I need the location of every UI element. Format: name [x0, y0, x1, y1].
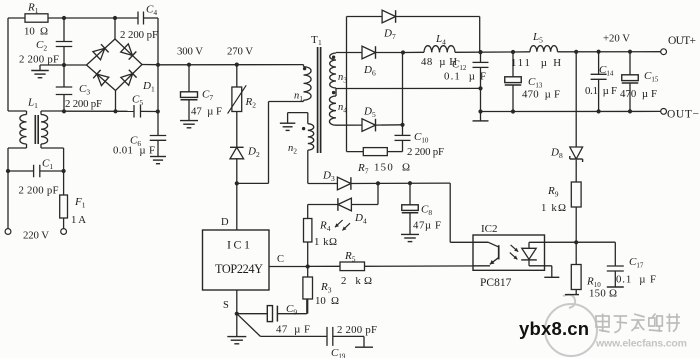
svg-text:0.1 µ F: 0.1 µ F [444, 71, 486, 83]
svg-text:111 µ H: 111 µ H [511, 57, 561, 69]
svg-text:220 V: 220 V [23, 230, 49, 242]
svg-text:0.01 µ F: 0.01 µ F [113, 145, 155, 157]
svg-text:1: 1 [318, 38, 322, 47]
svg-text:T: T [311, 34, 318, 46]
svg-text:150 Ω: 150 Ω [589, 288, 617, 300]
svg-text:0.1 µ F: 0.1 µ F [585, 85, 617, 97]
svg-text:1 kΩ: 1 kΩ [541, 202, 566, 214]
svg-text:S: S [223, 300, 229, 311]
svg-text:2 200 pF: 2 200 pF [19, 185, 59, 197]
svg-text:OUT−: OUT− [667, 109, 699, 121]
svg-text:D: D [221, 217, 229, 228]
svg-text:PC817: PC817 [480, 277, 512, 289]
svg-text:TOP224Y: TOP224Y [215, 262, 263, 276]
svg-text:2 200 pF: 2 200 pF [65, 98, 102, 110]
svg-text:47µ F: 47µ F [413, 220, 441, 232]
svg-text:2 kΩ: 2 kΩ [341, 275, 372, 287]
svg-text:1 A: 1 A [71, 214, 86, 226]
svg-text:300 V: 300 V [177, 46, 203, 58]
svg-text:IC1: IC1 [227, 238, 250, 252]
svg-text:www.elecfans.com: www.elecfans.com [595, 338, 687, 350]
svg-text:47 µ F: 47 µ F [191, 106, 222, 118]
svg-text:270 V: 270 V [227, 46, 253, 58]
svg-text:ybx8.cn: ybx8.cn [519, 318, 589, 339]
svg-text:470 µ F: 470 µ F [620, 88, 657, 100]
svg-text:2 200 pF: 2 200 pF [337, 324, 377, 336]
svg-text:150 Ω: 150 Ω [374, 162, 410, 174]
svg-text:1 kΩ: 1 kΩ [314, 236, 337, 248]
svg-text:47 µ F: 47 µ F [276, 324, 310, 336]
svg-text:2 200 pF: 2 200 pF [19, 54, 59, 66]
svg-text:OUT+: OUT+ [668, 35, 696, 47]
svg-text:10 Ω: 10 Ω [315, 295, 339, 307]
svg-text:+20 V: +20 V [603, 33, 630, 45]
svg-text:470 µ F: 470 µ F [522, 89, 560, 101]
svg-text:2 200 pF: 2 200 pF [407, 146, 444, 158]
svg-text:10 Ω: 10 Ω [24, 26, 48, 38]
svg-text:2 200 pF: 2 200 pF [120, 29, 158, 41]
svg-text:C: C [277, 254, 284, 265]
svg-text:IC2: IC2 [481, 223, 498, 235]
svg-text:0.1 µ F: 0.1 µ F [616, 274, 656, 286]
